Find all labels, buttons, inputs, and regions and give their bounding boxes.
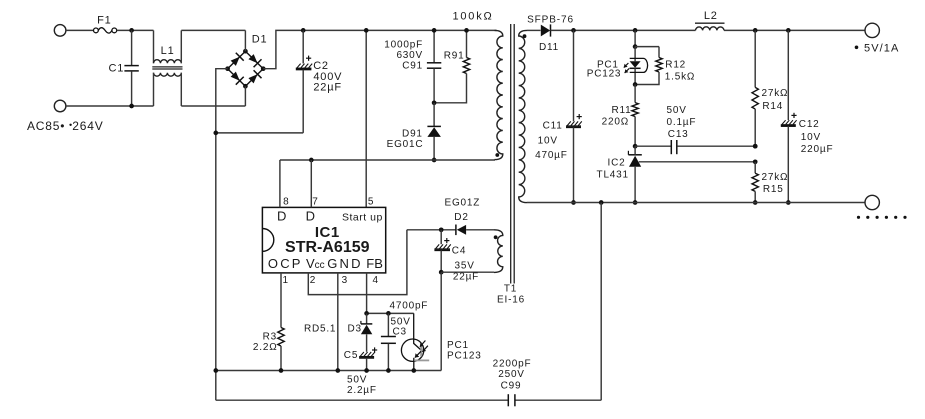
svg-text:TL431: TL431 xyxy=(597,169,629,180)
input terminal bottom xyxy=(54,100,66,112)
capacitor C99 xyxy=(507,394,509,406)
svg-text:C3: C3 xyxy=(393,327,407,338)
wire GND pin3 xyxy=(337,273,339,371)
wire bridge top xyxy=(244,30,246,51)
svg-text:220Ω: 220Ω xyxy=(602,117,629,128)
svg-text:C12: C12 xyxy=(799,119,820,130)
transformer T1 primary winding xyxy=(495,30,503,159)
svg-text:OCP: OCP xyxy=(268,256,303,271)
svg-text:1.5kΩ: 1.5kΩ xyxy=(665,71,695,82)
capacitor C4 xyxy=(440,230,442,244)
svg-text:R12: R12 xyxy=(665,59,686,70)
resistor R11 xyxy=(634,85,636,103)
svg-text:10V: 10V xyxy=(801,132,821,143)
svg-text:100kΩ: 100kΩ xyxy=(452,11,493,23)
svg-text:L1: L1 xyxy=(161,45,175,57)
capacitor C2 xyxy=(302,30,304,63)
svg-text:D: D xyxy=(277,208,286,223)
wire drain line xyxy=(280,159,495,161)
svg-text:D91: D91 xyxy=(402,129,423,140)
resistor R14 xyxy=(754,30,756,87)
svg-text:D2: D2 xyxy=(454,212,468,223)
wire secondary top rail xyxy=(724,29,865,31)
svg-text:FB: FB xyxy=(366,256,383,271)
svg-text:R15: R15 xyxy=(763,184,784,195)
wire secondary top xyxy=(527,29,541,31)
resistor R12 xyxy=(658,47,660,58)
svg-text:2200pF: 2200pF xyxy=(493,359,532,370)
svg-text:L2: L2 xyxy=(704,10,718,22)
capacitor C5 xyxy=(360,352,364,356)
svg-text:35V: 35V xyxy=(455,260,475,271)
svg-text:STR-A6159: STR-A6159 xyxy=(285,239,370,256)
svg-text:220µF: 220µF xyxy=(801,144,834,155)
svg-text:GND: GND xyxy=(327,256,363,271)
svg-text:0.1µF: 0.1µF xyxy=(667,117,697,128)
capacitor C11 xyxy=(571,28,576,33)
wire DC minus xyxy=(216,69,228,401)
resistor R15 xyxy=(754,162,756,173)
inductor L2 xyxy=(695,22,725,24)
svg-text:D1: D1 xyxy=(252,33,268,45)
svg-text:50V: 50V xyxy=(667,105,687,116)
wire bridge bottom xyxy=(244,86,246,106)
svg-text:Start up: Start up xyxy=(342,211,383,223)
wire TL431 ref xyxy=(639,161,755,163)
IC1 STR-A6159 xyxy=(262,207,385,273)
svg-text:22µF: 22µF xyxy=(453,272,479,283)
svg-text:3: 3 xyxy=(342,275,348,286)
output terminal minus xyxy=(865,195,879,209)
svg-text:264V: 264V xyxy=(72,119,103,133)
svg-text:C91: C91 xyxy=(402,61,423,72)
input terminal top xyxy=(54,25,66,37)
svg-text:D11: D11 xyxy=(539,42,559,53)
transformer T1 aux winding xyxy=(494,230,503,273)
node C1 top xyxy=(129,28,134,33)
wire GND rail xyxy=(216,370,441,372)
resistor R3 / pin1 xyxy=(280,273,282,328)
svg-text:22µF: 22µF xyxy=(313,82,342,94)
svg-text:27kΩ: 27kΩ xyxy=(762,172,789,183)
svg-text:27kΩ: 27kΩ xyxy=(762,88,789,99)
resistor R91 xyxy=(466,30,468,57)
svg-text:F1: F1 xyxy=(97,14,111,26)
svg-text:PC1: PC1 xyxy=(447,340,469,351)
svg-text:5V/1A: 5V/1A xyxy=(864,42,899,54)
wire xyxy=(181,29,245,31)
transformer core xyxy=(510,24,512,284)
svg-text:T1: T1 xyxy=(504,284,517,295)
svg-text:2.2µF: 2.2µF xyxy=(347,385,377,396)
diode D2 EG01Z xyxy=(407,229,456,231)
svg-text:50V: 50V xyxy=(347,374,367,385)
wire secondary bottom rail xyxy=(527,202,865,204)
svg-text:EI-16: EI-16 xyxy=(497,295,525,306)
svg-text:4700pF: 4700pF xyxy=(390,301,429,312)
zener D3 RD5.1 xyxy=(366,313,368,323)
svg-text:RD5.1: RD5.1 xyxy=(304,323,336,334)
transformer T1 secondary winding xyxy=(519,30,527,202)
wire DC plus xyxy=(263,30,496,68)
wire xyxy=(181,105,245,107)
output terminal plus xyxy=(865,23,879,37)
wire xyxy=(66,29,94,31)
svg-text:EG01C: EG01C xyxy=(387,139,424,150)
node C1 bottom xyxy=(129,104,134,109)
svg-text:AC85•: AC85• xyxy=(27,119,65,133)
capacitor C13 xyxy=(635,145,671,147)
diode D11 SFPB-76 xyxy=(541,25,550,37)
svg-text:C5: C5 xyxy=(344,350,358,361)
svg-text:470µF: 470µF xyxy=(535,150,568,161)
svg-text:C11: C11 xyxy=(543,121,563,132)
wire xyxy=(117,29,154,31)
capacitor C1 xyxy=(131,30,133,65)
svg-text:C1: C1 xyxy=(109,63,125,75)
wire FB pin4 xyxy=(366,273,368,314)
svg-text:R11: R11 xyxy=(611,105,631,116)
optocoupler PC1 phototransistor xyxy=(401,339,423,361)
svg-text:7: 7 xyxy=(312,197,318,208)
wire xyxy=(66,105,154,107)
diode D91 xyxy=(433,103,435,126)
svg-text:PC123: PC123 xyxy=(587,68,622,79)
svg-text:4: 4 xyxy=(373,275,379,286)
svg-text:PC123: PC123 xyxy=(447,351,482,362)
svg-text:IC2: IC2 xyxy=(608,157,626,168)
svg-text:R91: R91 xyxy=(444,51,465,62)
svg-text:8: 8 xyxy=(283,197,289,208)
wire startup xyxy=(365,30,367,207)
fuse F1 xyxy=(94,28,99,33)
svg-text:10V: 10V xyxy=(538,136,558,147)
capacitor C3 xyxy=(387,313,389,336)
optocoupler PC1 LED + R12 xyxy=(633,28,638,33)
node C2 top xyxy=(301,28,306,33)
svg-text:5: 5 xyxy=(368,197,374,208)
svg-text:D: D xyxy=(306,208,315,223)
capacitor C12 xyxy=(787,30,789,120)
svg-text:D3: D3 xyxy=(348,323,362,334)
svg-text:C13: C13 xyxy=(668,129,689,140)
bridge rectifier D1 xyxy=(228,51,246,68)
svg-text:1: 1 xyxy=(283,275,289,286)
wire Vcc pin2 xyxy=(308,230,407,295)
common-mode choke L1 xyxy=(153,30,155,63)
svg-text:EG01Z: EG01Z xyxy=(445,198,481,209)
node DC minus / C2 xyxy=(213,131,218,136)
svg-text:2.2Ω: 2.2Ω xyxy=(253,342,278,353)
node snubber xyxy=(432,100,437,105)
wire Y-cap rail xyxy=(600,203,602,401)
dots xyxy=(857,216,860,219)
shunt regulator IC2 TL431 xyxy=(628,154,641,156)
svg-text:C99: C99 xyxy=(501,381,522,392)
svg-text:630V: 630V xyxy=(396,50,423,61)
svg-text:SFPB-76: SFPB-76 xyxy=(527,14,574,25)
svg-text:1000pF: 1000pF xyxy=(384,40,423,51)
svg-text:R14: R14 xyxy=(762,101,783,112)
svg-text:250V: 250V xyxy=(498,369,525,380)
svg-text:2: 2 xyxy=(310,275,316,286)
svg-text:C4: C4 xyxy=(452,245,466,256)
capacitor C91 xyxy=(433,30,435,62)
